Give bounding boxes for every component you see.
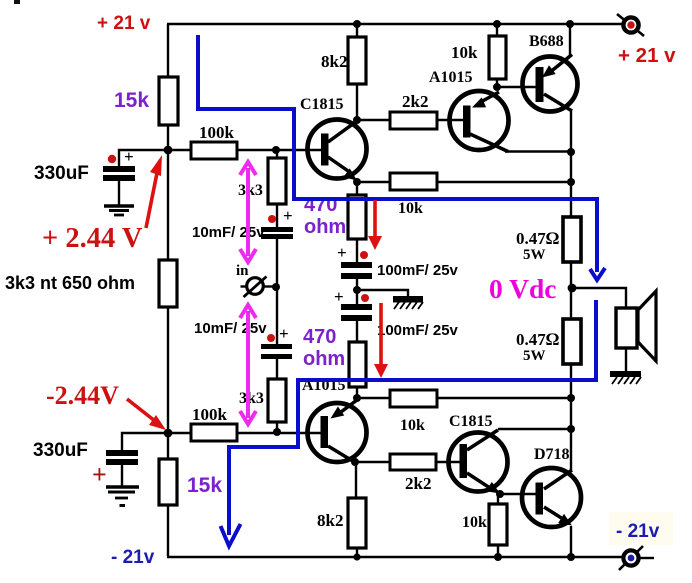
svg-text:10k: 10k <box>398 200 423 217</box>
svg-text:15k: 15k <box>187 474 222 497</box>
transistor A1015 top <box>450 91 509 152</box>
svg-text:3k3: 3k3 <box>238 182 263 199</box>
svg-text:5W: 5W <box>523 348 546 364</box>
svg-text:10k: 10k <box>462 514 487 531</box>
svg-text:A1015: A1015 <box>429 69 473 86</box>
resistor 100k top <box>191 142 237 159</box>
wire left vertical rail <box>167 24 169 78</box>
red arrow to +2.44V node <box>146 155 162 228</box>
ground under speaker (earth) <box>610 371 641 384</box>
svg-text:+: + <box>283 206 293 225</box>
wire A1015 top collector to rail <box>505 150 571 152</box>
blue feedback wire bottom <box>221 300 597 546</box>
junction between 100mF caps / earth <box>353 286 361 294</box>
svg-text:+ 21 v: + 21 v <box>97 13 151 34</box>
svg-text:-2.44V: -2.44V <box>46 381 119 410</box>
svg-text:10k: 10k <box>400 417 425 434</box>
ground mid (earth) <box>393 296 423 309</box>
svg-text:330uF: 330uF <box>33 440 88 461</box>
svg-text:+: + <box>279 324 289 343</box>
wire C1815 bottom collector row <box>498 428 571 430</box>
resistor 3k3-nt mid-left <box>159 260 177 307</box>
wire 8k2 top drop <box>356 24 358 37</box>
svg-text:100k: 100k <box>192 405 228 424</box>
svg-text:- 21v: - 21v <box>111 547 155 568</box>
wire 100mF2 to 470-2 <box>356 321 358 342</box>
polarity red dot 10mF upper <box>268 215 276 223</box>
transistor A1015 bottom <box>308 400 367 463</box>
resistor 100k bottom <box>191 424 237 441</box>
capacitor 10mF/25v lower <box>261 344 292 359</box>
terminal -21v bottom right <box>619 546 643 570</box>
polarity red dot 100mF upper <box>360 251 368 259</box>
svg-text:in: in <box>236 263 249 279</box>
wire C1815 bottom emitter to D718 base <box>500 493 536 495</box>
svg-text:C1815: C1815 <box>449 413 493 430</box>
svg-text:10mF/ 25v: 10mF/ 25v <box>192 224 265 241</box>
wire 330uF top to ground <box>118 181 120 205</box>
polarity red dot 100mF lower <box>361 294 369 302</box>
svg-text:+: + <box>334 287 344 306</box>
junction 10k / right rail lower <box>567 394 575 402</box>
resistor 0.47 ohm upper <box>563 217 581 262</box>
capacitor 330uF top <box>103 166 135 181</box>
svg-text:10mF/ 25v: 10mF/ 25v <box>194 320 267 337</box>
resistor 470 ohm lower <box>349 342 366 387</box>
transistor C1815 top <box>308 120 367 181</box>
svg-text:8k2: 8k2 <box>321 52 347 71</box>
resistor 0.47 ohm lower <box>563 319 581 364</box>
wire top rail +21v <box>167 23 623 25</box>
resistor 2k2 bottom <box>390 454 436 470</box>
wire B688 collector down right rail <box>570 109 572 217</box>
resistor 8k2 bottom <box>348 498 366 548</box>
transistor D718 <box>522 468 581 527</box>
svg-text:ohm: ohm <box>303 348 345 370</box>
transistor B688 <box>523 55 578 112</box>
resistor 8k2 top <box>348 37 366 84</box>
svg-text:C1815: C1815 <box>300 96 344 113</box>
resistor 15k top <box>159 77 178 125</box>
svg-text:ohm: ohm <box>304 216 346 238</box>
stray mark top-left <box>14 0 20 4</box>
resistor 10k vertical top <box>489 36 506 79</box>
junction node +2.44V <box>164 146 173 155</box>
svg-text:5W: 5W <box>523 247 546 263</box>
svg-text:3k3 nt 650 ohm: 3k3 nt 650 ohm <box>5 273 135 293</box>
junction A1015 emitter / 10k / 470 <box>353 394 361 402</box>
wire 10k vert top drop <box>496 24 498 36</box>
svg-text:2k2: 2k2 <box>405 474 431 493</box>
wire B688 emitter to rail <box>569 24 571 56</box>
svg-text:- 21v: - 21v <box>616 521 660 542</box>
polarity red dot 330uF top <box>108 155 116 163</box>
text highlight box <box>609 512 673 545</box>
resistor 3k3 upper <box>268 158 286 204</box>
svg-text:15k: 15k <box>114 89 149 112</box>
speaker <box>616 291 656 361</box>
wire input stage upper: node to 100k to C1815 base <box>168 149 191 151</box>
junction C1815 emitter / 10k / D718 base <box>496 490 504 498</box>
input terminal circle <box>241 277 267 298</box>
svg-text:330uF: 330uF <box>34 163 89 184</box>
junction bottom rail / 8k2 <box>353 553 360 560</box>
svg-text:10k: 10k <box>451 43 478 62</box>
capacitor 330uF bottom <box>106 450 138 465</box>
wire emitter row 10k bottom <box>357 397 390 399</box>
red arrow to -2.44V node <box>127 399 166 430</box>
svg-text:0.47Ω: 0.47Ω <box>516 228 559 248</box>
wire A1015 bottom collector to 2k2 <box>355 461 390 463</box>
svg-text:+: + <box>92 460 107 489</box>
wire A1015 bottom collector down to 8k2 <box>355 463 357 498</box>
wire 3k3 top chain <box>276 150 278 158</box>
capacitor 10mF/25v upper <box>261 227 293 239</box>
wire emitter row 10k top <box>357 181 390 183</box>
junction input / cap chain <box>272 283 280 291</box>
red current arrow lower <box>374 303 388 378</box>
junction 8k2 / 2k2 / C1815 collector <box>353 116 361 124</box>
junction output node 0Vdc <box>568 284 577 293</box>
resistor 10k horizontal top <box>390 173 437 190</box>
svg-text:470: 470 <box>303 326 336 348</box>
svg-text:+ 2.44 V: + 2.44 V <box>42 223 143 254</box>
junction bottom rail / D718 emitter <box>567 553 575 561</box>
resistor 15k bottom <box>159 459 177 505</box>
junction node -2.44V <box>164 429 173 438</box>
wire node to 2k2 top <box>357 119 390 121</box>
wire bottom rail -21v <box>167 556 623 558</box>
resistor 10k vertical bottom <box>489 504 507 545</box>
wire input stage lower: node to 100k to A1015 base <box>168 432 191 434</box>
junction top rail / 10k <box>493 20 501 28</box>
transistor C1815 bottom <box>449 430 508 494</box>
wire input terminal stub <box>263 285 277 287</box>
svg-text:B688: B688 <box>529 33 564 50</box>
wire mid ground stub <box>357 290 408 296</box>
polarity red dot 10mF lower <box>267 334 275 342</box>
wire right rail between 0.47 resistors <box>570 262 572 318</box>
ground under 330uF top <box>104 206 134 215</box>
junction 10k / A1015 emitter / B688 base <box>493 83 501 91</box>
wire 10k vert bottom drop <box>497 494 499 504</box>
svg-text:100k: 100k <box>199 123 235 142</box>
capacitor 100mF/25v upper <box>341 262 372 279</box>
junction 100k / 3k3 / C1815 base <box>272 146 280 154</box>
junction A1015 collector / right rail <box>567 148 575 156</box>
wire 330uF bottom to ground <box>121 464 123 486</box>
svg-text:0 Vdc: 0 Vdc <box>489 273 557 304</box>
svg-text:+: + <box>124 147 134 166</box>
junction 100k / 3k3 / A1015 base <box>273 428 281 436</box>
svg-text:2k2: 2k2 <box>402 92 428 111</box>
junction bottom rail / 10k <box>494 553 502 561</box>
wire speaker to ground <box>625 348 627 371</box>
wire output to speaker <box>572 288 626 308</box>
junction C1815 collector / right rail <box>567 425 575 433</box>
svg-text:3k3: 3k3 <box>239 390 264 407</box>
svg-text:100mF/ 25v: 100mF/ 25v <box>377 322 459 339</box>
magenta arrow lower (in path) <box>240 305 256 424</box>
svg-text:0.47Ω: 0.47Ω <box>516 329 559 349</box>
red current arrow upper <box>368 200 382 250</box>
terminal +21v top right <box>617 14 644 36</box>
resistor 3k3 lower <box>268 379 286 422</box>
junction top rail / 8k2 <box>353 20 361 28</box>
svg-text:+ 21 v: + 21 v <box>618 44 676 67</box>
wire 330uF top connection <box>119 150 168 166</box>
svg-text:8k2: 8k2 <box>317 511 343 530</box>
blue feedback wire top <box>198 35 605 280</box>
resistor 2k2 top <box>390 112 437 129</box>
wire right rail below 0.47-2 <box>570 364 572 470</box>
magenta arrow upper (in path) <box>240 162 256 262</box>
wire 330uF bottom connection <box>122 433 168 451</box>
svg-text:D718: D718 <box>534 446 570 463</box>
junction C1815 emitter / 10k / 470 <box>353 178 361 186</box>
resistor 470 ohm upper <box>348 195 366 239</box>
wire B688 base <box>497 86 536 88</box>
resistor 10k horizontal bottom <box>390 390 437 407</box>
wire lower 10mF chain <box>276 359 278 379</box>
capacitor 100mF/25v lower <box>341 304 372 321</box>
junction top rail / B688 emitter <box>566 20 574 28</box>
ground under 330uF bottom <box>106 487 139 506</box>
junction A1015 collector / 2k2 / 8k2 <box>351 458 359 466</box>
svg-text:100mF/ 25v: 100mF/ 25v <box>377 262 459 279</box>
svg-text:+: + <box>337 243 347 262</box>
wire C1815 top emitter chain down <box>356 182 358 195</box>
junction 10k / right rail <box>567 178 575 186</box>
